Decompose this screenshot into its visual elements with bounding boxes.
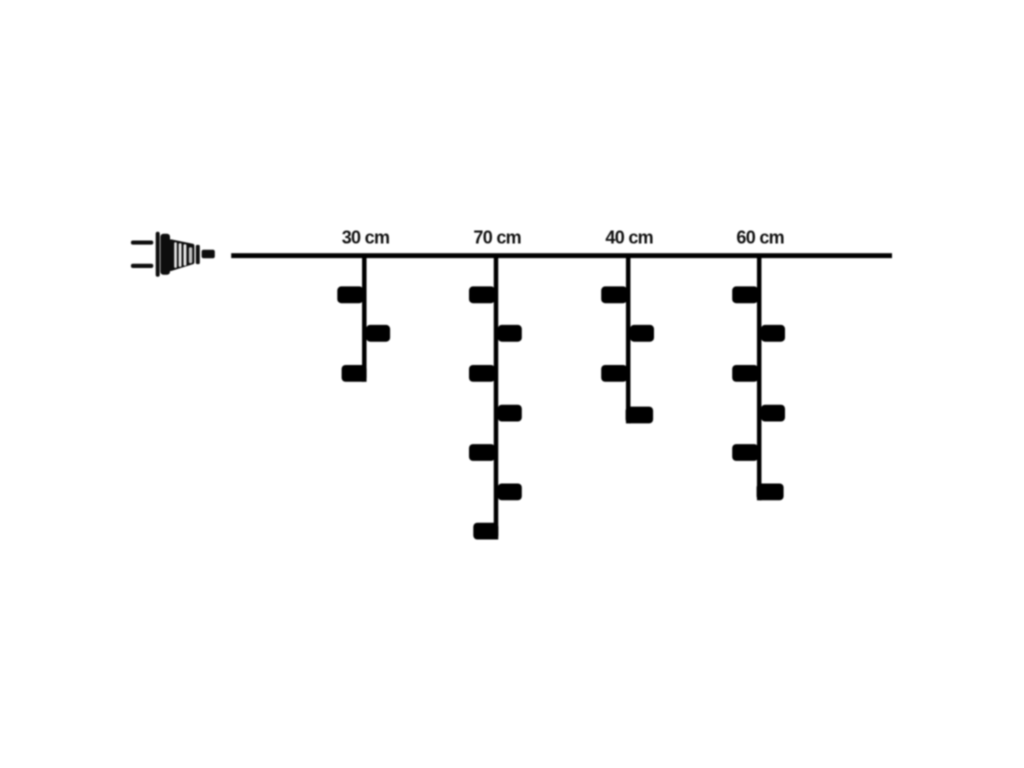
svg-text:70 cm: 70 cm	[473, 228, 521, 248]
bulb 2.4 right	[498, 405, 522, 422]
bulb 3.3 left	[601, 365, 627, 382]
bulb 4.3 left	[732, 365, 758, 382]
bulb 2.1 left	[469, 286, 495, 303]
main wire	[231, 253, 892, 258]
drop wire 4 (60 cm)	[757, 256, 762, 500]
bulb 4.5 left	[732, 444, 758, 461]
bulb 3.2 right	[630, 325, 654, 342]
bulb 1.1 left	[337, 286, 363, 303]
svg-text:30 cm: 30 cm	[342, 228, 390, 248]
svg-text:40 cm: 40 cm	[605, 228, 653, 248]
bulb 3.4 bottom right	[626, 407, 654, 424]
bulb 1.3 bottom left	[342, 365, 367, 382]
bulb 4.2 right	[761, 325, 785, 342]
svg-text:60 cm: 60 cm	[736, 228, 784, 248]
drop wire 3 (40 cm)	[626, 256, 631, 423]
plug ribbed cone	[169, 239, 194, 271]
plug cable nub	[202, 250, 215, 258]
cone slot 2	[179, 243, 182, 267]
plug prong bottom	[131, 264, 153, 268]
plug ring	[196, 245, 200, 264]
cone slot 3	[184, 244, 187, 266]
bulb 2.7 bottom left	[473, 523, 498, 540]
bulb 2.2 right	[498, 325, 522, 342]
bulb 1.2 right	[366, 325, 390, 342]
bulb 4.4 right	[761, 405, 785, 422]
bulb 2.6 right	[498, 484, 522, 501]
bulb 2.3 left	[469, 365, 495, 382]
plug prong top	[131, 241, 153, 245]
plug body	[160, 234, 170, 275]
bulb 3.1 left	[601, 286, 627, 303]
drop wire 1 (30 cm)	[362, 256, 367, 382]
cone slot 1	[174, 242, 177, 268]
bulb 4.6 bottom right	[757, 484, 784, 501]
cone slot 4	[189, 247, 192, 263]
plug face plate	[156, 232, 160, 277]
bulb 2.5 left	[469, 444, 495, 461]
bulb 4.1 left	[732, 286, 758, 303]
plug P1	[131, 232, 215, 277]
drop wire 2 (70 cm)	[494, 256, 499, 540]
